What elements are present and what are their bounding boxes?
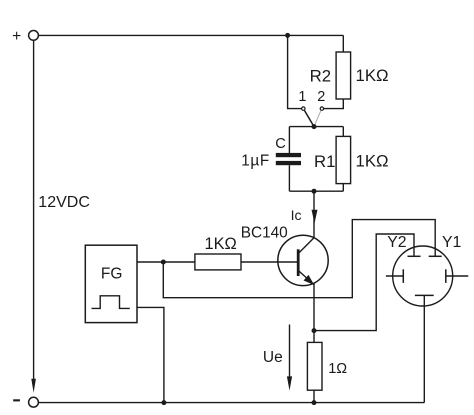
resistor base 1KΩ: [195, 254, 241, 270]
svg-text:R2: R2: [310, 66, 331, 85]
svg-text:1KΩ: 1KΩ: [356, 66, 389, 85]
Y1 deflection plate (top-right): [429, 255, 442, 257]
wire Y2 tap from emitter junction: [314, 234, 414, 331]
wire R1 bottom lead: [342, 184, 344, 192]
node emitter junction: [312, 328, 317, 333]
svg-text:1KΩ: 1KΩ: [356, 152, 389, 171]
wire collector lead: [313, 191, 315, 238]
svg-text:Y2: Y2: [387, 234, 406, 251]
svg-text:12VDC: 12VDC: [38, 194, 90, 211]
node top-rail junction: [285, 33, 290, 38]
wire R2 top lead: [342, 35, 344, 52]
node emitter resistor on bottom rail: [312, 400, 317, 405]
svg-text:BC140: BC140: [241, 225, 288, 242]
arrow current direction on left rail: [31, 379, 36, 393]
wire FG output to base resistor: [137, 261, 195, 263]
node FG lower output on bottom rail: [161, 400, 166, 405]
wire capacitor top lead: [288, 127, 290, 153]
X plate left with stub lead: [386, 269, 403, 283]
pulse waveform symbol inside FG: [92, 296, 130, 309]
arrow Ue measurement direction: [287, 325, 292, 391]
wire capacitor bottom lead: [288, 165, 290, 191]
node FG output junction: [161, 260, 166, 265]
resistor R2: [336, 52, 351, 99]
label - (negative supply terminal sign): [13, 399, 20, 401]
wire FG lower output to bottom rail: [137, 307, 164, 402]
wire 1Ω bottom lead: [313, 390, 315, 402]
switch lever to contact 1: [305, 111, 315, 127]
wire R2 bottom lead to contact 2: [324, 99, 343, 109]
switch alternate position to contact 2: [314, 111, 321, 127]
node switch common: [312, 124, 317, 129]
wire bottom rail: [39, 402, 425, 404]
node RC bottom junction: [312, 189, 317, 194]
X plate right with stub lead: [446, 269, 469, 283]
Y2 deflection plate (top-left): [408, 255, 421, 257]
svg-text:1Ω: 1Ω: [328, 361, 347, 377]
wire emitter lead: [313, 283, 315, 342]
oscilloscope CRT circle: [393, 246, 453, 306]
svg-text:FG: FG: [101, 266, 123, 283]
svg-text:Ic: Ic: [291, 207, 302, 223]
resistor 1Ω emitter: [307, 342, 322, 390]
terminal +: [29, 31, 39, 41]
wire RC bottom node: [289, 190, 343, 192]
capacitor C plates: [276, 153, 301, 165]
switch contact 1: [302, 107, 305, 110]
switch contact 2: [320, 107, 323, 110]
svg-text:Y1: Y1: [442, 234, 462, 251]
resistor R1: [336, 136, 351, 183]
svg-text:1KΩ: 1KΩ: [205, 235, 237, 253]
wire top rail: [39, 34, 344, 36]
wire Y1 tap from FG output node: [163, 220, 435, 298]
svg-text:1µF: 1µF: [241, 153, 269, 170]
wire switch branch from top rail to contact 1: [288, 35, 302, 108]
bottom plate of CRT: [415, 294, 434, 296]
function generator FG box: [85, 245, 137, 322]
svg-text:Ue: Ue: [263, 349, 283, 366]
svg-text:+: +: [12, 28, 21, 45]
svg-text:1: 1: [298, 89, 306, 105]
terminal -: [29, 397, 39, 407]
svg-text:R1: R1: [314, 152, 335, 171]
svg-text:2: 2: [317, 89, 325, 105]
wire left rail (12VDC): [33, 41, 35, 380]
arrow Ic: [312, 210, 318, 223]
wire CRT bottom plate to bottom rail: [423, 295, 425, 402]
wire R1 top lead: [342, 127, 344, 137]
wire base lead: [241, 261, 298, 263]
svg-text:C: C: [275, 136, 286, 152]
transistor Q1 BC140: [278, 235, 328, 285]
wire RC top node: [289, 126, 343, 128]
